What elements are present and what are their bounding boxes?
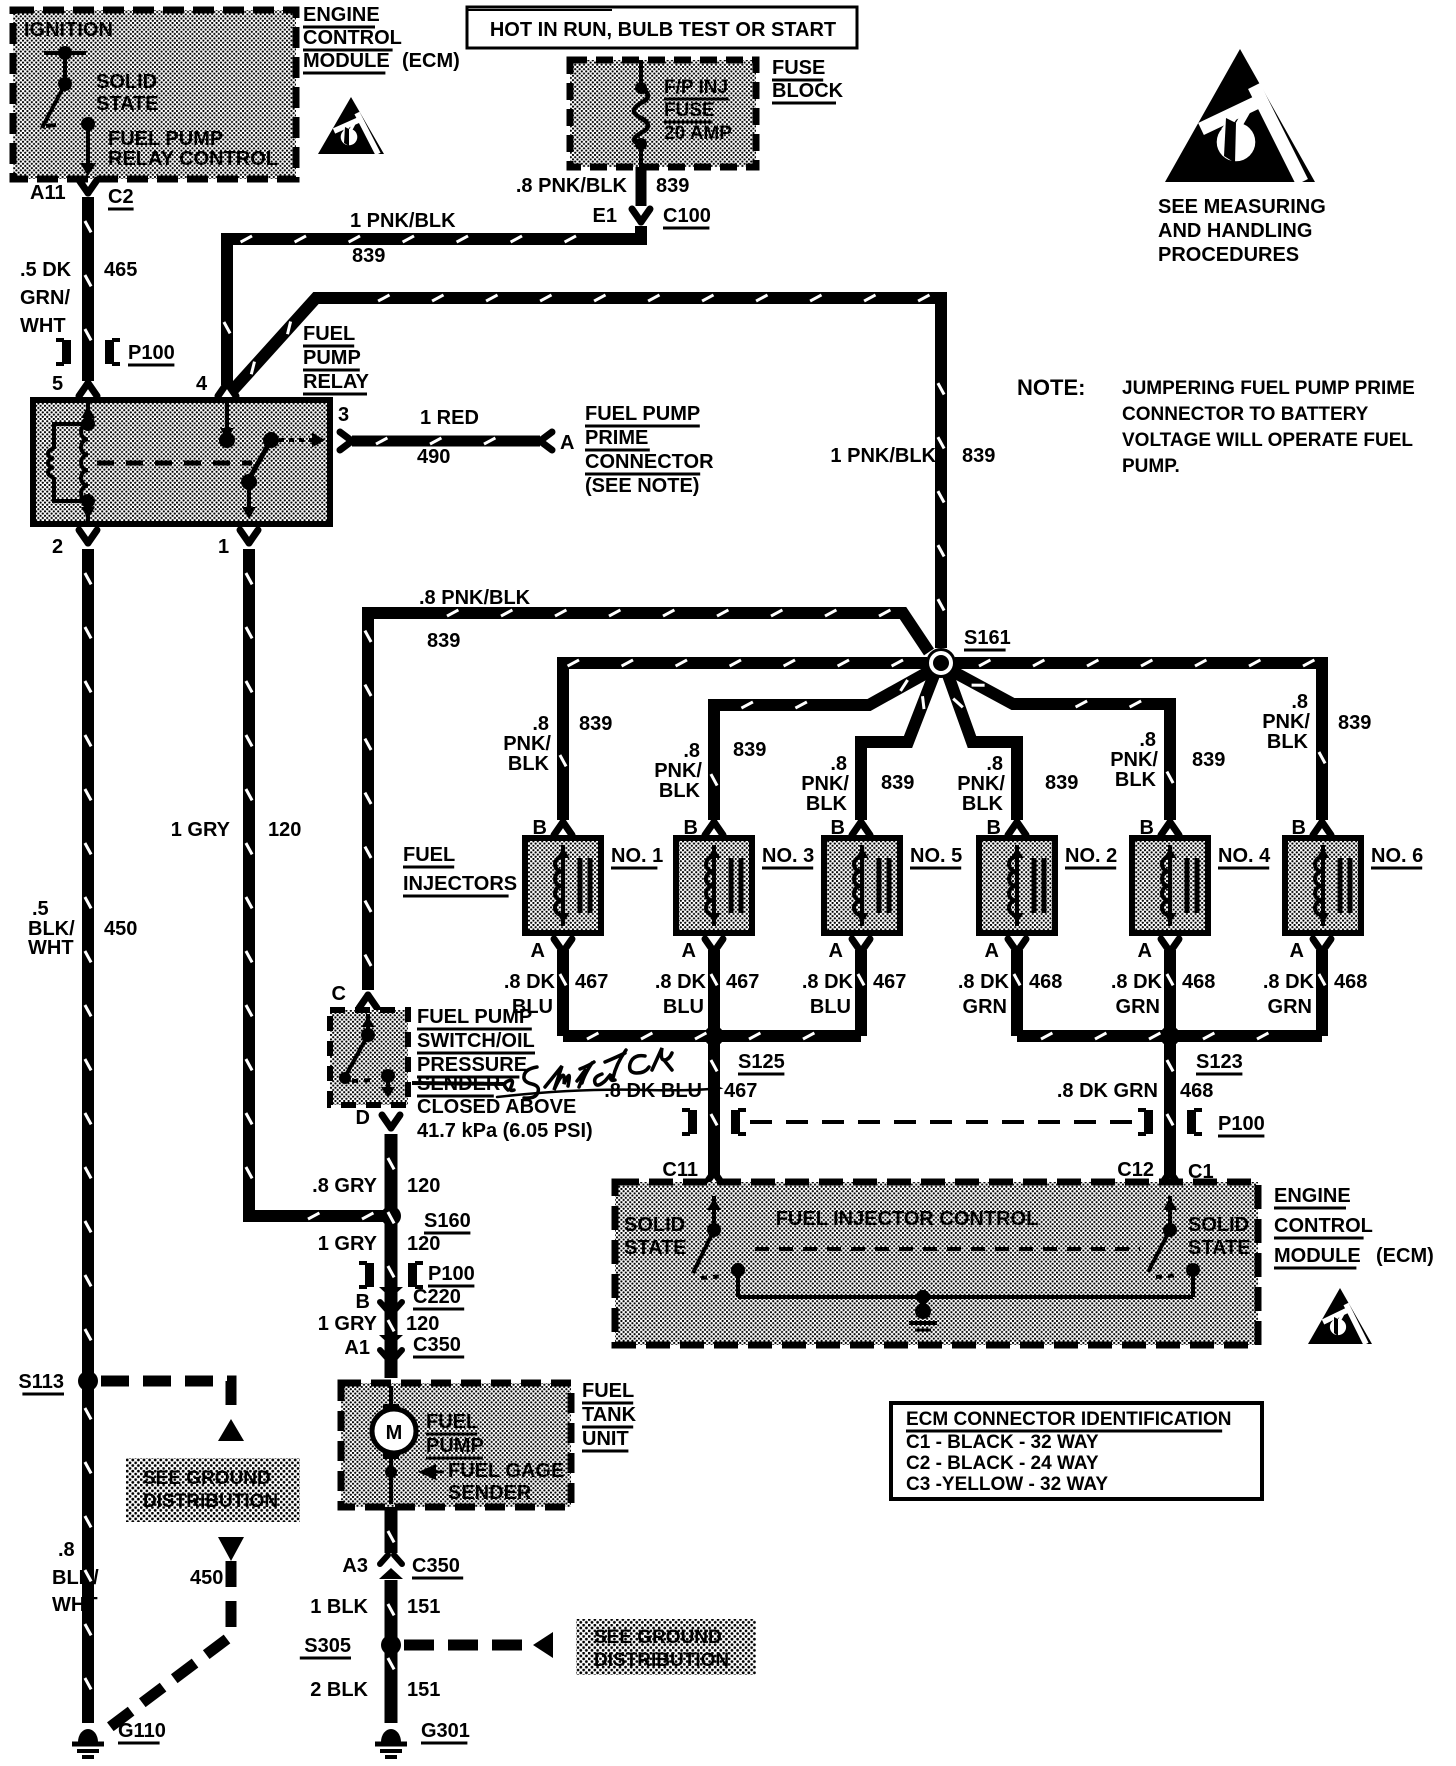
svg-text:D: D	[356, 1107, 370, 1129]
wire to injector NO.4 B	[952, 671, 1170, 820]
svg-text:A: A	[829, 940, 843, 962]
wire .8 DK GRN 468 S123 to C12	[1164, 1036, 1176, 1175]
svg-text:WHT: WHT	[20, 315, 66, 337]
right driver switch	[1148, 1196, 1193, 1297]
svg-text:HOT IN RUN, BULB TEST OR START: HOT IN RUN, BULB TEST OR START	[490, 19, 836, 41]
injector NO. 6	[1285, 838, 1361, 933]
svg-text:CONNECTOR: CONNECTOR	[585, 451, 714, 473]
connector D	[382, 1115, 400, 1128]
svg-text:1 GRY: 1 GRY	[318, 1233, 378, 1255]
fuel tank unit box	[341, 1383, 571, 1507]
svg-text:S305: S305	[304, 1635, 351, 1657]
svg-text:B: B	[987, 817, 1001, 839]
svg-text:PUMP: PUMP	[426, 1435, 484, 1457]
wire .5 DK GRN/WHT 465	[82, 197, 94, 381]
svg-text:WHT: WHT	[28, 937, 74, 959]
ECM fuel injector control box	[615, 1182, 1258, 1345]
svg-text:.8: .8	[683, 740, 700, 762]
svg-text:839: 839	[1192, 749, 1225, 771]
wire to injector NO.1 B	[563, 663, 927, 820]
svg-text:BLK: BLK	[962, 793, 1004, 815]
svg-text:41.7 kPa (6.05 PSI): 41.7 kPa (6.05 PSI)	[417, 1120, 593, 1142]
svg-text:RELAY: RELAY	[303, 371, 370, 393]
svg-text:FUSE: FUSE	[772, 57, 825, 79]
svg-text:PUMP: PUMP	[303, 347, 361, 369]
internal link + ground	[738, 1295, 1193, 1299]
svg-text:.8: .8	[1139, 729, 1156, 751]
handwritten o.SWITCK annotation	[497, 1048, 719, 1098]
wire bus S123	[1017, 1030, 1322, 1042]
svg-text:C2 - BLACK - 24 WAY: C2 - BLACK - 24 WAY	[906, 1453, 1099, 1474]
wire to A3 C350	[385, 1507, 398, 1553]
svg-text:SWITCH/OIL: SWITCH/OIL	[417, 1030, 535, 1052]
svg-text:BLOCK: BLOCK	[772, 80, 844, 102]
svg-text:20 AMP: 20 AMP	[664, 123, 732, 144]
svg-text:151: 151	[407, 1596, 440, 1618]
splice S125	[704, 1026, 724, 1046]
svg-text:450: 450	[104, 918, 137, 940]
svg-text:SOLID: SOLID	[624, 1214, 685, 1236]
svg-text:C1 - BLACK - 32 WAY: C1 - BLACK - 32 WAY	[906, 1432, 1099, 1453]
svg-text:A3: A3	[342, 1555, 368, 1577]
svg-text:468: 468	[1180, 1080, 1213, 1102]
svg-text:S125: S125	[738, 1051, 785, 1073]
svg-text:P100: P100	[428, 1263, 475, 1285]
svg-text:DISTRIBUTION: DISTRIBUTION	[143, 1491, 278, 1512]
svg-text:1 GRY: 1 GRY	[318, 1313, 378, 1335]
svg-text:MODULE: MODULE	[1274, 1245, 1361, 1267]
relay pin 4 connector	[218, 383, 236, 396]
svg-text:SEE GROUND: SEE GROUND	[594, 1627, 722, 1648]
svg-text:CONTROL: CONTROL	[1274, 1215, 1373, 1237]
wire to injector NO.6 B	[955, 663, 1322, 820]
svg-text:C3 -YELLOW - 32 WAY: C3 -YELLOW - 32 WAY	[906, 1474, 1108, 1495]
svg-text:FUEL INJECTOR CONTROL: FUEL INJECTOR CONTROL	[776, 1208, 1039, 1230]
svg-text:.5 DK: .5 DK	[20, 259, 72, 281]
svg-text:C220: C220	[413, 1286, 461, 1308]
splice S305	[381, 1635, 401, 1655]
relay linkage dashed	[97, 461, 252, 466]
svg-text:PNK/: PNK/	[1262, 711, 1310, 733]
connector P100 pass-through (C12 wire)	[1138, 1110, 1146, 1134]
svg-text:S160: S160	[424, 1210, 471, 1232]
svg-text:B: B	[533, 817, 547, 839]
svg-text:TANK: TANK	[582, 1404, 637, 1426]
svg-text:C11: C11	[662, 1159, 698, 1181]
svg-text:PNK/: PNK/	[801, 773, 849, 795]
svg-text:NO. 2: NO. 2	[1065, 845, 1117, 867]
wire fuse to C100	[636, 167, 647, 206]
fuel gage sender	[385, 1466, 397, 1478]
svg-text:FUEL: FUEL	[303, 323, 355, 345]
svg-text:839: 839	[656, 175, 689, 197]
svg-text:.8: .8	[532, 713, 549, 735]
svg-text:FUEL PUMP: FUEL PUMP	[585, 403, 700, 425]
svg-text:FUEL: FUEL	[582, 1380, 634, 1402]
svg-text:465: 465	[104, 259, 137, 281]
svg-text:CONTROL: CONTROL	[303, 27, 402, 49]
svg-text:F/P INJ: F/P INJ	[664, 77, 728, 98]
svg-text:B: B	[356, 1291, 370, 1313]
wire bus S125	[563, 1030, 861, 1042]
connector C2 A11	[79, 180, 97, 193]
svg-text:PRIME: PRIME	[585, 427, 648, 449]
svg-text:A: A	[1290, 940, 1304, 962]
svg-text:.8 DK: .8 DK	[802, 971, 854, 993]
ECM fuel-pump-relay-control box (top left)	[13, 10, 296, 179]
svg-text:SOLID: SOLID	[96, 71, 157, 93]
relay pin 1 connector	[240, 530, 258, 543]
svg-text:468: 468	[1334, 971, 1367, 993]
svg-text:ENGINE: ENGINE	[303, 4, 380, 26]
svg-text:B: B	[831, 817, 845, 839]
svg-text:.8 PNK/BLK: .8 PNK/BLK	[516, 175, 628, 197]
svg-text:NOTE:: NOTE:	[1017, 375, 1085, 400]
relay pin 5 connector	[79, 383, 97, 396]
svg-text:AND HANDLING: AND HANDLING	[1158, 220, 1312, 242]
svg-text:IGNITION: IGNITION	[24, 19, 113, 41]
svg-text:NO. 4: NO. 4	[1218, 845, 1271, 867]
svg-text:4: 4	[196, 373, 208, 395]
svg-text:839: 839	[352, 245, 385, 267]
svg-text:B: B	[684, 817, 698, 839]
svg-text:120: 120	[407, 1233, 440, 1255]
svg-text:BLK: BLK	[1267, 731, 1309, 753]
svg-text:GRN: GRN	[963, 996, 1007, 1018]
wire 1 BLK 151	[385, 1580, 398, 1723]
svg-text:C100: C100	[663, 205, 711, 227]
splice S123	[1160, 1026, 1180, 1046]
dashed to G110	[218, 1537, 244, 1561]
svg-text:839: 839	[579, 713, 612, 735]
svg-text:2: 2	[52, 536, 63, 558]
svg-text:JUMPERING FUEL PUMP PRIME: JUMPERING FUEL PUMP PRIME	[1122, 378, 1415, 399]
wire 1 RED 490 fuel pump prime	[340, 432, 352, 450]
svg-text:NO. 1: NO. 1	[611, 845, 663, 867]
svg-text:ECM CONNECTOR IDENTIFICATION: ECM CONNECTOR IDENTIFICATION	[906, 1409, 1231, 1430]
svg-text:GRN/: GRN/	[20, 287, 70, 309]
svg-text:INJECTORS: INJECTORS	[403, 873, 517, 895]
svg-text:467: 467	[726, 971, 759, 993]
svg-text:S123: S123	[1196, 1051, 1243, 1073]
svg-text:WHT: WHT	[52, 1594, 98, 1616]
svg-text:1 RED: 1 RED	[420, 407, 479, 429]
svg-text:STATE: STATE	[1188, 1237, 1251, 1259]
svg-text:PNK/: PNK/	[503, 733, 551, 755]
svg-text:839: 839	[733, 739, 766, 761]
svg-text:A: A	[1138, 940, 1152, 962]
connector C11	[705, 1172, 723, 1185]
svg-text:M: M	[386, 1422, 403, 1444]
see ground distribution box (left)	[126, 1458, 300, 1522]
svg-text:SEE GROUND: SEE GROUND	[143, 1468, 271, 1489]
ECM internal driver switch	[42, 53, 88, 168]
svg-text:467: 467	[575, 971, 608, 993]
svg-text:.8 DK: .8 DK	[1111, 971, 1163, 993]
injector NO. 5	[824, 838, 900, 933]
svg-text:.8 DK GRN: .8 DK GRN	[1057, 1080, 1158, 1102]
svg-text:UNIT: UNIT	[582, 1428, 629, 1450]
splice S160	[381, 1206, 401, 1226]
svg-text:(SEE NOTE): (SEE NOTE)	[585, 475, 699, 497]
svg-text:BLK: BLK	[806, 793, 848, 815]
wire .8 PNK/BLK 839 C-switch branch	[368, 613, 929, 990]
svg-text:.8 GRY: .8 GRY	[312, 1175, 377, 1197]
svg-text:BLK: BLK	[508, 753, 550, 775]
svg-text:468: 468	[1029, 971, 1062, 993]
svg-text:BLK: BLK	[659, 780, 701, 802]
connector P100 pass-through (C11 wire)	[682, 1110, 690, 1134]
big ESD symbol	[1165, 49, 1315, 182]
svg-text:BLK/: BLK/	[52, 1567, 99, 1589]
wire .8 DK BLU 467 S125 to C11	[708, 1036, 720, 1175]
small ESD triangle (bottom)	[1308, 1288, 1372, 1344]
svg-text:(ECM): (ECM)	[402, 50, 460, 72]
fuel pump motor	[389, 1386, 393, 1404]
wire to injector NO.5 B	[861, 675, 934, 820]
svg-text:FUEL: FUEL	[403, 844, 455, 866]
svg-text:NO. 5: NO. 5	[910, 845, 962, 867]
dashed branch S113 to see-ground box	[101, 1381, 231, 1416]
svg-text:SENDER: SENDER	[448, 1482, 532, 1504]
relay switch	[225, 403, 229, 438]
svg-text:.8: .8	[986, 753, 1003, 775]
svg-text:839: 839	[962, 445, 995, 467]
injector NO. 3	[676, 838, 752, 933]
svg-text:B: B	[1140, 817, 1154, 839]
svg-text:FUEL PUMP: FUEL PUMP	[417, 1006, 532, 1028]
svg-text:.8: .8	[58, 1539, 75, 1561]
left driver switch	[693, 1196, 738, 1297]
injector NO. 1	[525, 838, 601, 933]
svg-text:PNK/: PNK/	[1110, 749, 1158, 771]
fuse block box	[570, 60, 756, 167]
svg-text:A: A	[985, 940, 999, 962]
svg-text:151: 151	[407, 1679, 440, 1701]
svg-text:A: A	[682, 940, 696, 962]
small ESD triangle (top)	[318, 97, 384, 154]
svg-text:SEE MEASURING: SEE MEASURING	[1158, 196, 1326, 218]
splice S161	[926, 648, 956, 678]
svg-text:467: 467	[724, 1080, 757, 1102]
svg-text:1 BLK: 1 BLK	[310, 1596, 368, 1618]
svg-text:ENGINE: ENGINE	[1274, 1185, 1351, 1207]
svg-text:468: 468	[1182, 971, 1215, 993]
connector C	[359, 995, 377, 1008]
svg-text:.8: .8	[1291, 691, 1308, 713]
svg-text:120: 120	[406, 1313, 439, 1335]
connector P100 pass-through (left)	[56, 340, 64, 364]
svg-text:P100: P100	[1218, 1113, 1265, 1135]
relay coil	[54, 403, 88, 521]
ECM connector identification table	[891, 1403, 1262, 1499]
svg-text:490: 490	[417, 446, 450, 468]
svg-text:FUSE: FUSE	[664, 100, 715, 121]
svg-text:.8 DK: .8 DK	[1263, 971, 1315, 993]
svg-text:STATE: STATE	[96, 93, 159, 115]
svg-text:PUMP.: PUMP.	[1122, 456, 1180, 477]
svg-text:FUEL GAGE: FUEL GAGE	[448, 1460, 564, 1482]
svg-text:CLOSED ABOVE: CLOSED ABOVE	[417, 1096, 576, 1118]
svg-text:.8 PNK/BLK: .8 PNK/BLK	[419, 587, 531, 609]
wire .8 BLK/WHT 450 to G110	[82, 1384, 94, 1723]
svg-text:.5: .5	[32, 898, 49, 920]
ground G301	[381, 1729, 401, 1742]
svg-text:FUEL PUMP: FUEL PUMP	[108, 128, 223, 150]
svg-text:B: B	[1292, 817, 1306, 839]
dashed branch to see ground distribution (right)	[404, 1640, 530, 1651]
connector C100 E1	[632, 209, 650, 222]
svg-text:A: A	[560, 432, 574, 454]
wire 1 PNK/BLK 839 from relay pin4 to S161	[233, 298, 941, 648]
connector C12	[1161, 1172, 1179, 1185]
svg-text:FUEL: FUEL	[426, 1411, 478, 1433]
svg-text:BLU: BLU	[810, 996, 851, 1018]
svg-text:C: C	[332, 983, 346, 1005]
wire to injector NO.3 B	[714, 671, 930, 820]
svg-text:839: 839	[1045, 772, 1078, 794]
svg-text:BLU: BLU	[663, 996, 704, 1018]
svg-text:C350: C350	[413, 1334, 461, 1356]
svg-text:2 BLK: 2 BLK	[310, 1679, 368, 1701]
svg-text:C350: C350	[412, 1555, 460, 1577]
svg-text:C2: C2	[108, 186, 134, 208]
svg-text:S113: S113	[18, 1371, 64, 1393]
HOT IN RUN box	[467, 7, 857, 48]
svg-text:.8: .8	[830, 753, 847, 775]
svg-text:1 GRY: 1 GRY	[171, 819, 231, 841]
svg-text:STATE: STATE	[624, 1237, 687, 1259]
svg-text:.8 DK: .8 DK	[504, 971, 556, 993]
svg-text:NO. 3: NO. 3	[762, 845, 814, 867]
splice S113	[78, 1371, 98, 1391]
svg-text:VOLTAGE WILL OPERATE FUEL: VOLTAGE WILL OPERATE FUEL	[1122, 430, 1413, 451]
svg-text:DISTRIBUTION: DISTRIBUTION	[594, 1650, 729, 1671]
svg-text:A11: A11	[30, 182, 66, 204]
svg-text:3: 3	[338, 404, 349, 426]
svg-text:S161: S161	[964, 627, 1011, 649]
svg-text:.8 DK: .8 DK	[958, 971, 1010, 993]
svg-text:NO. 6: NO. 6	[1371, 845, 1423, 867]
injector NO. 4	[1132, 838, 1208, 933]
svg-text:P100: P100	[128, 342, 175, 364]
wire .5 BLK/WHT 450 relay pin2 to S113	[82, 549, 94, 1378]
svg-text:MODULE: MODULE	[303, 50, 390, 72]
svg-text:A: A	[531, 940, 545, 962]
fuel pump relay box	[33, 400, 330, 524]
relay pin 2 connector	[79, 530, 97, 543]
svg-text:BLK: BLK	[1115, 769, 1157, 791]
svg-text:PNK/: PNK/	[957, 773, 1005, 795]
wire 1 GRY 120 relay pin1 down to S160	[249, 549, 385, 1216]
svg-text:PROCEDURES: PROCEDURES	[1158, 244, 1299, 266]
connector P100 pass-through (GRY wire)	[359, 1263, 367, 1287]
svg-text:A1: A1	[344, 1337, 370, 1359]
svg-text:839: 839	[427, 630, 460, 652]
svg-text:PNK/: PNK/	[654, 760, 702, 782]
svg-text:1 PNK/BLK: 1 PNK/BLK	[350, 210, 456, 232]
svg-text:G110: G110	[118, 1720, 166, 1742]
injector NO. 2	[979, 838, 1055, 933]
wire 1 PNK/BLK 839 from relay pin4 up to C100	[227, 226, 641, 385]
svg-text:C12: C12	[1117, 1159, 1154, 1181]
svg-text:839: 839	[1338, 712, 1371, 734]
svg-text:450: 450	[190, 1567, 223, 1589]
svg-text:CONNECTOR TO BATTERY: CONNECTOR TO BATTERY	[1122, 404, 1369, 425]
svg-text:RELAY CONTROL: RELAY CONTROL	[108, 148, 278, 170]
svg-text:120: 120	[407, 1175, 440, 1197]
wire .8 GRY 120 D to S160	[385, 1134, 398, 1378]
svg-text:120: 120	[268, 819, 301, 841]
svg-text:GRN: GRN	[1268, 996, 1312, 1018]
svg-text:SOLID: SOLID	[1188, 1214, 1249, 1236]
svg-text:GRN: GRN	[1116, 996, 1160, 1018]
see ground distribution box (right)	[576, 1619, 756, 1675]
svg-text:.8 DK: .8 DK	[655, 971, 707, 993]
ground G110	[78, 1729, 98, 1742]
svg-text:467: 467	[873, 971, 906, 993]
svg-text:5: 5	[52, 373, 63, 395]
svg-text:G301: G301	[421, 1720, 470, 1742]
wire to injector NO.2 B	[948, 675, 1017, 820]
svg-text:1 PNK/BLK: 1 PNK/BLK	[830, 445, 936, 467]
svg-text:(ECM): (ECM)	[1376, 1245, 1434, 1267]
svg-text:1: 1	[218, 536, 229, 558]
svg-text:839: 839	[881, 772, 914, 794]
svg-text:E1: E1	[593, 205, 617, 227]
